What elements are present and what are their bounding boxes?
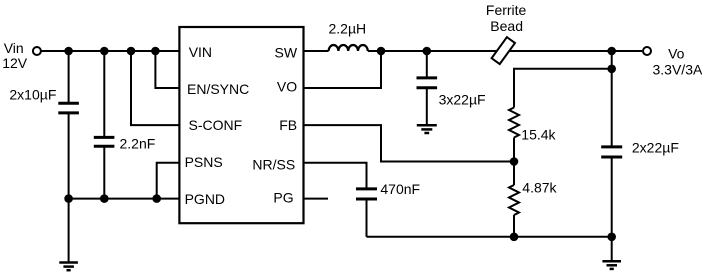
svg-text:Bead: Bead (490, 18, 523, 34)
svg-text:4.87k: 4.87k (522, 179, 557, 195)
svg-text:2x10µF: 2x10µF (9, 86, 56, 102)
wire: inductor to output rail (368, 50, 642, 52)
svg-text:SW: SW (275, 44, 298, 60)
node: ground rail at PSNS (152, 194, 161, 203)
node: output rail junction (607, 47, 616, 56)
node: bottom rail at output cap (607, 233, 616, 242)
ferrite bead FB1 (492, 37, 515, 64)
svg-text:15.4k: 15.4k (521, 127, 556, 143)
svg-text:3x22µF: 3x22µF (439, 92, 486, 108)
node: bottom rail at divider (510, 233, 519, 242)
node: input rail junction C-in (64, 47, 73, 56)
node: rail at 3x22uF (423, 47, 432, 56)
svg-text:2.2µH: 2.2µH (329, 20, 367, 36)
node: feedback tap (607, 65, 616, 74)
wire: R1 to FB node (513, 138, 515, 162)
wire: FB connection (304, 125, 515, 161)
wire: EN/SYNC connection (155, 51, 179, 88)
terminal Vo (643, 47, 651, 55)
resistor R1 15.4k (509, 108, 519, 138)
inductor L1 2.2uH (329, 45, 368, 51)
capacitor 2.2nF (94, 137, 115, 146)
svg-text:PSNS: PSNS (185, 154, 223, 170)
svg-text:S-CONF: S-CONF (189, 117, 243, 133)
ground right (602, 261, 621, 269)
wire: PSNS connection (157, 163, 180, 199)
wire: C-in bottom lead to ground rail (68, 113, 70, 199)
node: SW node at VO sense (377, 47, 386, 56)
svg-text:PG: PG (273, 190, 293, 206)
svg-text:Vo: Vo (668, 46, 685, 62)
svg-text:EN/SYNC: EN/SYNC (187, 81, 249, 97)
svg-text:VO: VO (277, 78, 297, 94)
node: input rail junction EN/SYNC (151, 47, 160, 56)
capacitor 3x22uF (417, 78, 438, 88)
resistor R2 4.87k (513, 162, 515, 186)
node: ground rail at C-in (64, 194, 73, 203)
wire: 2.2nF top lead (103, 51, 105, 137)
svg-text:FB: FB (279, 117, 297, 133)
wire: 470nF bottom lead (366, 199, 368, 237)
wire: 2.2nF bottom lead to ground rail (103, 146, 105, 198)
svg-text:PGND: PGND (185, 191, 225, 207)
ground left (59, 263, 78, 271)
wire: S-CONF connection (131, 51, 179, 125)
node: input rail junction 2.2nF (100, 47, 109, 56)
node: input rail junction S-CONF (127, 47, 136, 56)
wire: PG stub (304, 198, 329, 200)
svg-text:VIN: VIN (189, 44, 212, 60)
wire: output cap branch vertical (611, 51, 613, 147)
svg-text:NR/SS: NR/SS (252, 156, 295, 172)
svg-text:Ferrite: Ferrite (486, 2, 527, 18)
wire: feedback tap to divider (514, 69, 612, 108)
wire: C-in top lead (68, 51, 70, 103)
wire: NR/SS connection (304, 163, 367, 189)
wire: SW to inductor (304, 50, 329, 52)
wire: bottom ground rail (367, 236, 612, 238)
capacitor 2x22uF (601, 147, 622, 157)
ground middle (417, 125, 437, 133)
capacitor 2x10uF (58, 103, 79, 113)
wire: stem to right ground (611, 237, 613, 261)
wire: 2x22uF bottom lead (611, 157, 613, 237)
wire: 3x22uF bottom lead (426, 88, 428, 126)
svg-text:12V: 12V (2, 55, 28, 71)
wire: VO sense connection (304, 51, 382, 88)
wire: ground rail PGND (69, 198, 180, 200)
svg-text:2x22µF: 2x22µF (632, 139, 679, 155)
capacitor 470nF (356, 189, 377, 199)
svg-text:2.2nF: 2.2nF (120, 136, 156, 152)
op IC U1 (179, 27, 303, 223)
svg-text:3.3V/3A: 3.3V/3A (653, 62, 702, 78)
node: ground rail at 2.2nF (100, 194, 109, 203)
wire: main input rail Vin to VIN pin (42, 50, 180, 52)
wire: R2 to bottom rail (513, 215, 515, 237)
wire: 3x22uF top lead (426, 51, 428, 78)
svg-text:Vin: Vin (4, 40, 24, 56)
svg-text:470nF: 470nF (380, 181, 420, 197)
wire: stem to left ground (68, 199, 70, 263)
node: FB divider node (510, 157, 519, 166)
terminal Vin (33, 47, 41, 55)
